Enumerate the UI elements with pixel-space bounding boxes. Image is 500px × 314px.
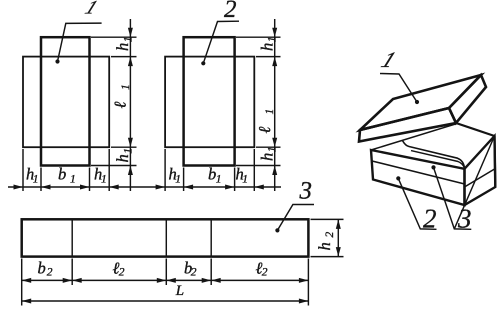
blank 1 flat pattern: side panel rectangle (23, 57, 109, 148)
svg-text:h: h (257, 43, 276, 51)
dimension arrowheads pattern 1 right column (128, 28, 277, 175)
svg-text:3: 3 (299, 178, 313, 205)
svg-text:1: 1 (70, 174, 76, 186)
isometric box: lid top face (360, 75, 481, 130)
isometric box: back right corner edge (493, 136, 496, 187)
box label 3 leader (431, 165, 435, 169)
strip h2 extension lines (311, 219, 344, 256)
strip dimension arrowheads (22, 219, 341, 303)
isometric box: lid front wall (359, 108, 456, 142)
label 1 leader line (58, 23, 102, 61)
strip dimension line b2 l2 b2 l2 (22, 279, 309, 281)
svg-text:h: h (315, 242, 334, 250)
strip h2 dimension line (337, 219, 339, 256)
label 2 leader dot (201, 61, 205, 65)
blank 1 right extension lines (91, 37, 137, 165)
svg-text:1: 1 (122, 148, 134, 154)
svg-text:b: b (38, 259, 46, 278)
isometric box: collar back left top edge (371, 124, 456, 150)
blank 3 strip fold lines (72, 220, 211, 255)
svg-text:2: 2 (47, 267, 53, 279)
svg-text:1: 1 (82, 0, 101, 18)
isometric box: lid right wall (449, 75, 486, 123)
svg-text:L: L (175, 283, 184, 299)
label 1 leader dot (55, 59, 59, 63)
svg-text:1: 1 (120, 84, 132, 90)
blank 1 bottom extension lines (23, 149, 109, 191)
isometric box: collar front top inner edge (411, 151, 465, 169)
blank 2 right extension lines (236, 37, 281, 165)
svg-text:1: 1 (378, 47, 400, 72)
svg-text:1: 1 (216, 174, 222, 186)
svg-text:1: 1 (33, 174, 39, 186)
svg-text:h: h (113, 154, 132, 162)
blank 1 right dimension line h1 l1 h1 (129, 19, 131, 191)
box label 2 leader (396, 176, 400, 180)
svg-text:1: 1 (101, 174, 107, 186)
isometric box: body front face (371, 150, 465, 205)
isometric box: collar top right edge (456, 123, 495, 136)
strip bottom extension lines (22, 259, 309, 306)
svg-text:1: 1 (264, 109, 276, 115)
svg-text:ℓ: ℓ (111, 102, 130, 109)
blank 2 flat pattern: side panel rectangle (165, 57, 254, 148)
box label 1 leader (415, 100, 419, 104)
svg-text:h: h (257, 153, 276, 161)
dimension arrowheads pattern 1 bottom (14, 185, 264, 190)
svg-text:ℓ: ℓ (255, 127, 274, 134)
svg-text:1: 1 (267, 147, 279, 153)
label 3 strip leader line (277, 205, 314, 231)
blank 2 bottom extension lines (165, 149, 254, 191)
svg-text:1: 1 (242, 174, 248, 186)
isometric box: body right face (465, 136, 496, 205)
svg-text:h: h (113, 43, 132, 51)
svg-text:2: 2 (224, 0, 237, 23)
svg-text:2: 2 (423, 204, 437, 234)
strip overall dimension line L (22, 300, 309, 302)
svg-text:1: 1 (267, 37, 279, 43)
isometric box: body right seam line (465, 169, 495, 187)
blank 1 bottom dimension line h1 b1 h1 (8, 186, 281, 188)
big item number labels (82, 0, 472, 234)
label 2 leader line (203, 21, 239, 63)
svg-text:2: 2 (324, 232, 336, 238)
isometric box: collar front top edge with bend (403, 141, 465, 169)
svg-text:b: b (58, 165, 66, 184)
svg-text:2: 2 (119, 267, 125, 279)
svg-text:3: 3 (457, 204, 472, 234)
isometric box: body front seam line (372, 161, 465, 184)
blank 3 strip rectangle (22, 219, 309, 256)
svg-text:2: 2 (191, 267, 197, 279)
box label 3 leader second branch (454, 136, 494, 229)
svg-text:1: 1 (175, 174, 181, 186)
blank 2 flat pattern: vertical panel with end flaps (184, 37, 235, 165)
svg-text:1: 1 (122, 37, 134, 43)
blank 1 flat pattern: vertical panel with end flaps (41, 37, 90, 165)
label 3 strip leader dot (275, 228, 279, 232)
blank 2 right dimension line h1 l1 h1 (274, 19, 276, 191)
svg-text:2: 2 (262, 267, 268, 279)
